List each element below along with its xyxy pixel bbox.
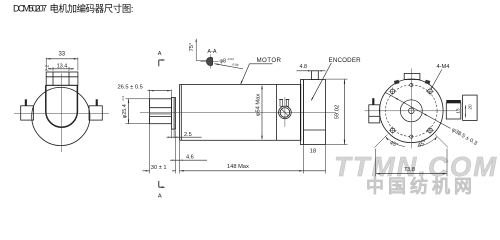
svg-text:26.5 ± 0.5: 26.5 ± 0.5 <box>118 84 143 90</box>
svg-text:4-M4: 4-M4 <box>437 64 450 70</box>
svg-text:DCM50207: DCM50207 <box>13 4 47 14</box>
svg-text:4.6: 4.6 <box>186 155 194 161</box>
svg-text:148 Max: 148 Max <box>227 164 249 170</box>
svg-text:59.02: 59.02 <box>335 105 341 119</box>
svg-text:φ25.4: φ25.4 <box>122 104 128 118</box>
svg-text:-0.04: -0.04 <box>227 57 234 61</box>
svg-text:75°: 75° <box>189 43 195 52</box>
svg-text:ENCODER: ENCODER <box>329 57 362 64</box>
svg-text:电机加编码器尺寸图:: 电机加编码器尺寸图: <box>50 3 134 14</box>
svg-text:13.4: 13.4 <box>57 64 68 70</box>
svg-text:A: A <box>158 51 162 57</box>
svg-text:30 ± 1: 30 ± 1 <box>151 165 167 171</box>
svg-text:A: A <box>158 193 162 199</box>
svg-text:中国纺机网: 中国纺机网 <box>366 176 476 197</box>
svg-text:A-A: A-A <box>207 49 217 55</box>
svg-text:2.5: 2.5 <box>184 132 192 138</box>
svg-text:73.8: 73.8 <box>404 167 415 173</box>
svg-text:20: 20 <box>468 104 473 110</box>
svg-text:+0.4: +0.4 <box>121 96 125 102</box>
svg-text:φ8: φ8 <box>220 59 227 65</box>
svg-text:7.2: 7.2 <box>44 64 50 71</box>
svg-text:13: 13 <box>456 108 461 114</box>
svg-text:4.8: 4.8 <box>300 64 308 70</box>
svg-text:MOTOR: MOTOR <box>257 57 282 64</box>
svg-text:18: 18 <box>310 148 316 154</box>
svg-text:φ54 Max: φ54 Max <box>255 94 261 116</box>
svg-text:33: 33 <box>58 51 65 57</box>
